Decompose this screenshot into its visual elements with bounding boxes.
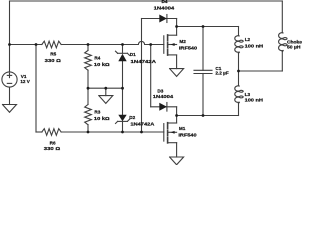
svg-text:L3: L3	[245, 92, 251, 97]
svg-text:2.2 µF: 2.2 µF	[215, 70, 228, 75]
svg-text:100 nH: 100 nH	[245, 98, 264, 103]
svg-text:10 kΩ: 10 kΩ	[94, 116, 110, 121]
svg-text:R4: R4	[94, 55, 100, 60]
svg-text:M2: M2	[179, 39, 186, 44]
svg-text:50 µH: 50 µH	[287, 44, 301, 49]
svg-text:L2: L2	[245, 37, 251, 42]
svg-text:1N4742A: 1N4742A	[131, 59, 157, 64]
svg-text:10 kΩ: 10 kΩ	[94, 62, 110, 67]
svg-text:330 Ω: 330 Ω	[45, 58, 61, 63]
svg-text:1N4004: 1N4004	[154, 5, 175, 10]
svg-text:D4: D4	[162, 0, 168, 4]
svg-text:D2: D2	[129, 115, 135, 120]
svg-text:1N4004: 1N4004	[153, 94, 174, 99]
svg-text:IRF540: IRF540	[179, 45, 198, 50]
svg-text:330 Ω: 330 Ω	[44, 146, 61, 151]
svg-text:M1: M1	[179, 126, 186, 131]
svg-text:R5: R5	[50, 52, 56, 57]
svg-text:1N4742A: 1N4742A	[130, 122, 155, 127]
svg-text:100 nH: 100 nH	[245, 43, 264, 48]
svg-text:R3: R3	[94, 109, 100, 114]
svg-text:R6: R6	[50, 140, 56, 145]
svg-text:12 V: 12 V	[20, 79, 30, 84]
svg-text:D1: D1	[130, 52, 136, 57]
svg-text:IRF540: IRF540	[178, 132, 197, 137]
